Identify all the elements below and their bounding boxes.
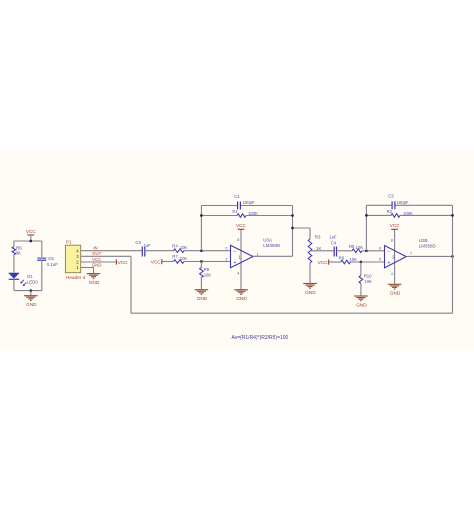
svg-text:GND: GND [390, 291, 401, 296]
svg-text:LED0: LED0 [27, 279, 38, 284]
svg-text:GND: GND [26, 302, 37, 307]
svg-text:10K: 10K [180, 256, 188, 261]
svg-text:6: 6 [379, 247, 381, 251]
svg-text:GND: GND [305, 290, 316, 295]
svg-text:C4: C4 [331, 240, 337, 245]
svg-text:R10: R10 [364, 274, 372, 279]
svg-text:VCC: VCC [318, 260, 329, 265]
svg-text:VCC: VCC [236, 223, 247, 228]
svg-text:0K: 0K [16, 251, 21, 256]
svg-text:1uF: 1uF [144, 243, 152, 248]
svg-text:VCC: VCC [92, 257, 101, 262]
svg-text:R1: R1 [232, 209, 238, 214]
svg-text:GND: GND [92, 263, 102, 268]
svg-text:C1: C1 [234, 194, 240, 199]
svg-text:VCC: VCC [390, 223, 401, 228]
svg-text:10K: 10K [349, 257, 357, 262]
svg-text:R8: R8 [339, 255, 345, 260]
svg-text:LM358D: LM358D [419, 243, 437, 248]
svg-text:8: 8 [391, 238, 393, 242]
svg-text:5: 5 [379, 258, 381, 262]
svg-text:R5: R5 [349, 244, 355, 249]
svg-text:+: + [387, 260, 390, 266]
svg-text:D1: D1 [27, 274, 33, 279]
svg-text:Header 4: Header 4 [66, 275, 86, 280]
svg-text:1uF: 1uF [329, 234, 337, 239]
svg-text:LM358D: LM358D [263, 243, 281, 248]
svg-text:100pF: 100pF [397, 200, 409, 205]
svg-text:GND: GND [356, 302, 367, 307]
svg-text:GND: GND [89, 280, 100, 285]
svg-text:100K: 100K [248, 211, 258, 216]
svg-text:VCC: VCC [151, 260, 162, 265]
svg-text:IN: IN [93, 245, 97, 250]
svg-text:C5: C5 [48, 256, 54, 261]
svg-text:4: 4 [237, 272, 239, 276]
svg-text:R3: R3 [315, 234, 321, 239]
svg-text:+: + [233, 260, 236, 266]
svg-text:10K: 10K [204, 273, 212, 278]
svg-text:4: 4 [391, 272, 393, 276]
svg-text:2: 2 [225, 247, 227, 251]
svg-text:3: 3 [225, 257, 227, 261]
svg-text:R2: R2 [387, 209, 393, 214]
svg-text:OUT: OUT [92, 251, 101, 256]
svg-text:8: 8 [237, 238, 239, 242]
svg-text:−: − [387, 249, 390, 255]
svg-text:10K: 10K [356, 245, 364, 250]
svg-text:VCC: VCC [118, 260, 129, 265]
svg-text:10K: 10K [364, 279, 372, 284]
svg-text:C2: C2 [388, 194, 394, 199]
svg-text:7: 7 [410, 252, 412, 256]
svg-text:P1: P1 [66, 240, 72, 245]
svg-text:GND: GND [197, 296, 208, 301]
svg-text:0.1uF: 0.1uF [47, 262, 59, 267]
svg-text:1: 1 [256, 252, 258, 256]
svg-text:R9: R9 [204, 267, 210, 272]
svg-text:100pF: 100pF [243, 200, 255, 205]
svg-text:Av=(R1/R4)*(R2/R5)=100: Av=(R1/R4)*(R2/R5)=100 [231, 335, 288, 341]
svg-text:R4: R4 [172, 243, 178, 248]
svg-text:R6: R6 [16, 245, 22, 250]
svg-text:100K: 100K [403, 211, 413, 216]
svg-text:−: − [233, 249, 236, 255]
svg-text:C3: C3 [135, 240, 141, 245]
svg-text:10K: 10K [180, 245, 188, 250]
svg-text:VCC: VCC [26, 229, 37, 234]
svg-text:GND: GND [236, 296, 247, 301]
svg-text:R7: R7 [172, 254, 178, 259]
